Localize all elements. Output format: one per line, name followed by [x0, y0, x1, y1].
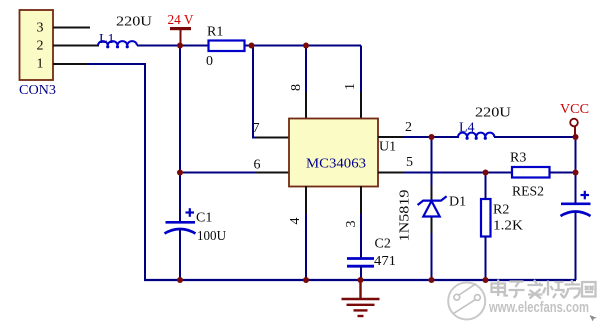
diode D1 cathode bar (schottky): [418, 196, 447, 205]
wire: C2 bottom lead: [360, 266, 362, 280]
capacitor C1 curved plate: [165, 229, 196, 234]
junction pin2 / D1: [429, 134, 435, 140]
svg-text:8: 8: [289, 84, 304, 91]
inductor L1: [98, 41, 137, 45]
capacitor C1 plus sign: [186, 208, 195, 217]
char 4 shao: [543, 281, 564, 299]
junction top net / pin8: [303, 43, 309, 49]
diode D1 triangle: [423, 201, 439, 217]
power symbol VCC circle: [570, 119, 578, 127]
wire: VCC vertical rail (right): [575, 137, 577, 204]
watermark logo circle: [448, 283, 485, 320]
wire: R3 right lead: [550, 172, 577, 174]
wire: IC pin 8 vertical: [305, 46, 307, 119]
wire: IC pin 5 to R3: [378, 172, 512, 174]
diode D1 leads: [431, 137, 433, 280]
char 1 dian: [492, 280, 509, 297]
junction rail / pin4: [303, 277, 309, 283]
wire: VCC stem: [574, 127, 576, 138]
pin stub 5 (black): [378, 172, 404, 174]
svg-text:VCC: VCC: [560, 102, 589, 117]
svg-text:C1: C1: [196, 211, 212, 226]
svg-text:L1: L1: [99, 32, 115, 47]
junction VCC / L4: [573, 134, 579, 140]
svg-text:5: 5: [406, 155, 413, 170]
wire: pin 1 to bottom rail (left vertical): [88, 64, 145, 280]
wire: vertical x=180 from 24V junction through pin6 to C1: [179, 46, 181, 223]
wire: pin 6 horizontal: [180, 172, 289, 174]
junction R3 / VCC vertical: [573, 170, 579, 176]
char 5 you: [564, 280, 581, 298]
wire: IC pin 1 vertical: [360, 46, 362, 119]
svg-text:471: 471: [374, 254, 396, 269]
connector CON3 body: [20, 10, 54, 80]
capacitor C3 curved plate: [561, 212, 591, 217]
op IC U1 MC34063 body: [289, 119, 378, 187]
inductor L4 joint loops: [466, 137, 487, 140]
svg-text:1N5819: 1N5819: [398, 190, 413, 242]
capacitor C3 plus sign: [581, 191, 590, 200]
wire: C1 bottom lead: [179, 230, 181, 280]
wire: R2 top lead: [485, 173, 487, 200]
svg-text:L4: L4: [459, 121, 475, 136]
wire: C3 bottom lead to rail: [575, 213, 577, 281]
svg-text:1.2K: 1.2K: [493, 219, 523, 234]
svg-text:2: 2: [37, 39, 44, 54]
pin stub 1 (black): [360, 92, 362, 119]
svg-text:U1: U1: [379, 140, 396, 155]
pin stub 8 (black): [305, 92, 307, 119]
char 6 wang: [582, 282, 596, 297]
char 3 fa: [528, 280, 544, 299]
svg-text:C2: C2: [375, 237, 391, 252]
svg-text:3: 3: [344, 221, 359, 228]
pin stub 6 (black): [256, 172, 289, 174]
svg-text:3: 3: [37, 21, 44, 36]
wire: IC pin 2 to VCC net: [378, 136, 459, 138]
inductor L4: [458, 133, 494, 137]
capacitor C2 bottom plate: [347, 265, 374, 268]
svg-text:6: 6: [254, 158, 261, 173]
pin stub 3 (black): [360, 186, 362, 214]
svg-text:R1: R1: [207, 25, 223, 40]
junction top net / 24V: [177, 43, 183, 49]
bottom rail wire: [144, 279, 576, 281]
mouse cursor: [590, 315, 597, 321]
resistor R2 body: [481, 199, 491, 237]
svg-text:0: 0: [206, 54, 213, 69]
capacitor C1 top plate: [166, 221, 196, 224]
junction top net / pin7: [249, 43, 255, 49]
wire: CON3 pin 3 stub: [53, 27, 90, 29]
pin stub 7 (black): [256, 137, 289, 139]
svg-text:1: 1: [37, 57, 44, 72]
svg-text:7: 7: [253, 121, 260, 136]
wire: IC pin 4 vertical to rail: [305, 187, 307, 281]
wire: CON3 pin 2 stub to L1: [53, 45, 99, 47]
svg-text:R2: R2: [493, 203, 509, 218]
svg-text:2: 2: [405, 120, 412, 135]
capacitor C2 top plate: [347, 257, 374, 260]
junction rail / D1: [429, 277, 435, 283]
wire: IC pin 3 vertical to C2: [360, 187, 362, 259]
char 2 zi: [509, 282, 525, 298]
resistor R1 body: [209, 41, 245, 52]
svg-text:MC34063: MC34063: [306, 157, 366, 172]
svg-text:4: 4: [288, 218, 303, 225]
junction rail / C1: [177, 277, 183, 283]
inductor L1 joint loops: [106, 45, 129, 48]
svg-text:R3: R3: [510, 151, 526, 166]
power symbol 24V bar: [170, 27, 191, 30]
pin stub 2 (black): [378, 136, 404, 138]
resistor R3 body: [512, 167, 550, 178]
wire: R2 bottom lead: [485, 237, 487, 281]
wire: L4 right to VCC vertical: [494, 136, 576, 138]
svg-text:CON3: CON3: [19, 83, 56, 98]
junction pin6 / C1 column: [177, 170, 183, 176]
svg-text:RES2: RES2: [512, 185, 544, 200]
ground symbol: [342, 280, 380, 316]
junction rail / R2: [483, 277, 489, 283]
junction pin5 / R2: [483, 170, 489, 176]
watermark chinese characters (pseudo glyphs): [492, 280, 596, 299]
svg-text:220U: 220U: [475, 106, 511, 121]
wire: top net from L1 to IC pin1 corner: [137, 45, 361, 47]
svg-text:www.elecfans.com: www.elecfans.com: [488, 299, 589, 316]
svg-text:24 V: 24 V: [168, 13, 194, 28]
svg-text:1: 1: [343, 83, 358, 90]
junction rail / C2 ground: [358, 277, 364, 283]
svg-text:100U: 100U: [197, 229, 226, 244]
diode D1 pin stubs (black): [431, 186, 433, 200]
svg-text:D1: D1: [449, 195, 466, 210]
capacitor C3 top plate: [561, 203, 591, 206]
wire: CON3 pin 1 horizontal: [53, 63, 90, 65]
pin stub 4 (black): [305, 186, 307, 214]
svg-text:220U: 220U: [116, 15, 152, 30]
wire: pin 7 vertical from top net: [253, 46, 288, 138]
power symbol 24V stem: [180, 29, 182, 46]
